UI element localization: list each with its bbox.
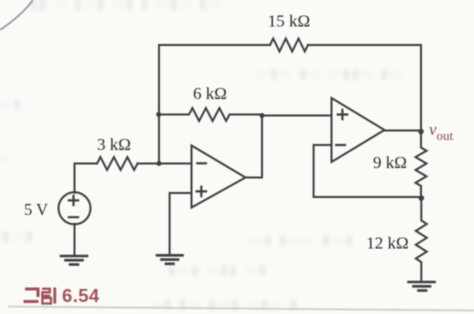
wire: V1 positive terminal up and right to R1 — [75, 164, 98, 193]
resistor R3 15 kOhm — [270, 39, 308, 52]
svg-text:vout: vout — [429, 120, 454, 143]
svg-text:3 kΩ: 3 kΩ — [97, 135, 131, 154]
node: U1 output feedback junction — [260, 113, 265, 118]
resistor R4 9 kOhm with leads — [416, 132, 427, 199]
op-amp U1 — [192, 146, 246, 208]
faint page bleed-through texture (decorative) — [30, 0, 223, 12]
wire: divider feedback to U2 inverting input — [314, 145, 422, 197]
wire: inverting node to U1 inverting input — [159, 163, 192, 165]
svg-text:12 kΩ: 12 kΩ — [366, 234, 408, 253]
resistor R2 6 kOhm with leads — [159, 108, 262, 121]
voltage source V1 5V — [59, 192, 91, 224]
wire: U2 output to vout node — [385, 130, 422, 132]
svg-text:6.54: 6.54 — [62, 285, 100, 306]
node: R4-R5 divider junction — [419, 195, 425, 201]
wire: top feedback left segment — [159, 44, 270, 46]
svg-text:5 V: 5 V — [24, 200, 48, 219]
op-amp U2 — [332, 98, 385, 162]
ground: below R5 — [409, 282, 435, 291]
wire: U1 noninverting input to ground — [170, 193, 192, 254]
wire: U1 output up to 6 kOhm junction — [246, 116, 263, 178]
ground: below V1 — [61, 256, 87, 265]
node: U1 inverting input junction — [157, 161, 162, 166]
node: vout — [418, 129, 424, 135]
decorative scan artifacts (unlabeled, precede first labelled element) — [0, 0, 33, 30]
wire: V1 negative terminal to ground — [74, 224, 76, 254]
wire: junction to U2 noninverting input — [262, 115, 332, 117]
resistor R5 12 kOhm with leads — [416, 198, 427, 282]
wire: R1 to inverting-input node — [138, 163, 160, 165]
svg-text:15 kΩ: 15 kΩ — [268, 12, 310, 31]
wire: left vertical riser from inverting node to top feedback — [158, 45, 160, 164]
node: 6 kOhm tap junction — [156, 112, 161, 117]
svg-text:6 kΩ: 6 kΩ — [193, 84, 227, 103]
ground: at U1 noninverting input — [157, 255, 183, 263]
resistor R1 3 kOhm — [97, 157, 138, 170]
svg-text:9 kΩ: 9 kΩ — [373, 153, 407, 172]
figure caption: 그림 6.54 — [24, 285, 100, 306]
wire: top feedback right segment and right vertical drop to vout — [308, 45, 421, 132]
